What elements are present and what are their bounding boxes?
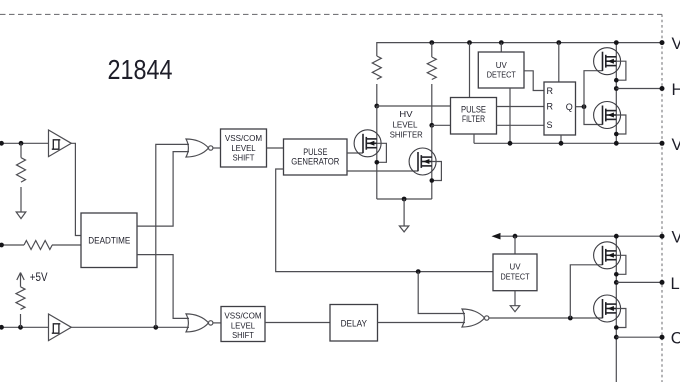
node G (right shifter drain) [429,123,434,128]
wire LS1 to pulse generator [267,147,284,149]
wire R3 to DEADTIME [52,244,81,246]
border frame dashed right [661,14,663,382]
delay block DELAY [330,305,378,342]
node J (VB rail to UV detect 1) [499,40,504,45]
level shift block LS2 VSS/COM LEVEL SHIFT [221,307,265,342]
wire pulse generator output to Q2 gate [347,170,418,172]
resistor R1 (input pulldown) [17,158,26,182]
svg-text:SHIFT: SHIFT [232,331,254,340]
transistor Q6 (low side driver N) [594,295,626,330]
svg-text:COM: COM [671,330,680,348]
ground (open arrow under UV detect 2) [510,306,519,312]
wire G3 output to low side driver gates [489,317,603,319]
wire node I down to pulse filter top [469,43,471,98]
wire node A to resistor R1 [20,143,22,157]
wire G2 output to level shift LS2 [213,322,221,324]
wire node H to ground [403,199,405,226]
svg-text:DELAY: DELAY [341,318,367,328]
ground (under R1) [16,212,26,219]
svg-text:DETECT: DETECT [501,272,531,282]
svg-text:PULSE: PULSE [303,147,327,157]
UV detect block UV DETECT (high side) [478,52,524,88]
wire node J down to UV detect 1 [500,43,502,52]
svg-text:HO: HO [672,81,680,99]
deadtime block DEADTIME [81,213,137,268]
wire U2 output to NOR G2 [71,326,189,328]
node M (latch on VS line) [559,141,564,146]
wire UV detect 1 bottom to VS line [509,88,511,143]
wire R2 to node B [20,314,22,327]
wire LO node to pin [616,281,662,283]
NOR gate G1 [186,139,213,157]
pin HIN (left input 1) [0,142,49,144]
wire G1 output to level shift LS1 [213,147,221,149]
node E (left shifter drain) [374,104,379,109]
wire left shifter drain-source lead [376,106,378,199]
wire latch Q output [576,106,585,108]
svg-text:R: R [547,86,554,96]
wire COM node to pin [616,336,662,338]
wire pulse filter to latch R input [497,106,545,108]
+5V supply arrow [17,273,24,287]
resistor R2 (+5V pullup) [16,287,25,310]
node O (chain on VB rail) [614,40,619,45]
node N (Q output) [582,104,587,109]
svg-text:PULSE: PULSE [461,104,486,114]
wire R5 to node G [431,84,433,125]
node P (HO node) [614,86,619,91]
wire node L down to latch top [558,43,560,82]
wire right shifter drain-source lead [431,125,433,199]
svg-text:SHIFTER: SHIFTER [390,131,423,140]
svg-text:R: R [547,102,554,112]
svg-text:HV: HV [399,110,413,119]
pin COM [660,335,665,340]
svg-text:GENERATOR: GENERATOR [291,157,339,167]
wire R1 to ground [20,187,22,212]
wire UV detect 1 output to latch R input [524,71,544,91]
wire node R down to UV detect 2 [514,236,516,254]
wire U1 output to DEADTIME [71,143,81,235]
svg-text:LEVEL: LEVEL [231,322,256,331]
svg-text:LEVEL: LEVEL [392,121,418,130]
svg-text:S: S [547,120,553,130]
wire pulse filter to latch S input [497,124,545,126]
wire VS line [474,142,662,144]
svg-text:Q: Q [566,102,573,112]
svg-text:FILTER: FILTER [462,114,485,124]
resistor R5 (HV pullup right) [427,57,436,80]
wire VB rail [377,43,662,56]
node K (UV detect on VS line) [508,141,513,146]
latch U3 (RS latch) [544,82,576,135]
node D (UV line junction to gate G3) [416,269,421,274]
svg-text:VSS/COM: VSS/COM [224,312,261,321]
wire UV detect 2 bottom stem [514,291,516,306]
svg-text:VSS/COM: VSS/COM [225,134,262,143]
node T (chain on VCC rail) [614,234,619,239]
wire high side driver chain [615,43,617,144]
svg-text:DETECT: DETECT [487,70,517,80]
wire VCC rail [500,235,662,237]
wire rail to resistor R5 [431,43,433,57]
pin VCC [660,234,665,239]
svg-text:DEADTIME: DEADTIME [88,236,130,246]
NOR gate G2 [186,314,213,332]
pin VS [660,141,665,146]
wire HO node to pin [616,88,662,90]
svg-text:LEVEL: LEVEL [231,144,256,153]
svg-text:UV: UV [510,261,521,271]
node B (SD junction with +5V pullup) [18,325,23,330]
wire shifter common source rail [377,198,432,200]
wire Q to output driver gates [584,71,603,125]
pin VB [660,40,665,45]
resistor R4 (HV pullup left) [372,56,381,79]
svg-text:VS: VS [672,136,680,154]
ground (under level shifters) [399,226,408,232]
pin SD (left input 3) [0,326,49,328]
wire SD line up to NOR G1 top input [156,144,189,327]
node H (source rail ground tap) [402,197,407,202]
pin LO [660,280,665,285]
border frame dashed top [0,13,662,15]
wire node D down to NOR G3 top input [418,272,465,314]
wire delay output to NOR G3 [378,322,466,324]
wire node G to pulse filter input [432,124,451,126]
pin HO [660,86,665,91]
transistor Q3 (high side driver P) [594,48,626,83]
svg-text:SHIFT: SHIFT [233,154,255,163]
level shift block LS1 VSS/COM LEVEL SHIFT [221,129,267,167]
transistor Q4 (high side driver N) [594,102,626,137]
svg-text:+5V: +5V [30,272,48,284]
svg-text:21844: 21844 [108,54,173,85]
wire node E to pulse filter input [377,105,451,107]
transistor Q5 (low side driver P) [594,242,626,277]
wire pulse generator output to Q1 gate [347,152,363,154]
wire DEADTIME top output to NOR G1 lower input [137,152,189,227]
node V (chain on COM line) [614,335,619,340]
wire low side driver chain [615,236,617,382]
buffer U1 (schmitt trigger input 1) [49,130,72,157]
wire latch bottom to VS line [560,135,562,143]
wire pulse generator lower-left to UV detect 2 input [276,169,493,272]
node A (input 1 junction) [19,141,24,146]
svg-text:LO: LO [671,275,680,293]
transistor Q2 (HV level shift right) [409,148,441,183]
node F (VB rail / right resistor) [429,40,434,45]
svg-text:UV: UV [496,60,507,70]
pulse generator block PULSE GENERATOR [284,139,348,175]
node Q4s (chain on VS line) [614,141,619,146]
wire R4 to node E [376,84,378,106]
transistor Q1 (HV level shift left) [354,130,386,165]
wire DEADTIME bottom output to NOR G2 upper input [137,255,189,319]
node C (SD line junction) [153,325,158,330]
HV LEVEL SHIFTER label [390,110,423,140]
wire pulse filter bottom to VS line [473,134,475,143]
node S (gate drive split) [568,316,573,321]
NOR gate G3 [462,309,489,327]
node U (LO node) [614,280,619,285]
svg-text:VB: VB [672,35,680,53]
VCC rail arrow [492,233,501,240]
pin DT (left input 2) [0,244,24,246]
resistor R3 (DT input, horizontal) [24,241,52,250]
svg-text:VCC: VCC [672,229,680,247]
UV detect block UV DETECT (low side) [493,254,537,291]
wire LS2 to delay block [265,322,330,324]
node R (VCC rail to UV detect 2) [513,234,518,239]
buffer U2 (schmitt trigger SD input) [49,314,72,341]
node I (VB rail to pulse filter) [467,40,472,45]
pulse filter block PULSE FILTER [451,98,497,135]
wire node S up to Q5 gate [570,265,602,318]
node L (VB rail to latch) [556,40,561,45]
